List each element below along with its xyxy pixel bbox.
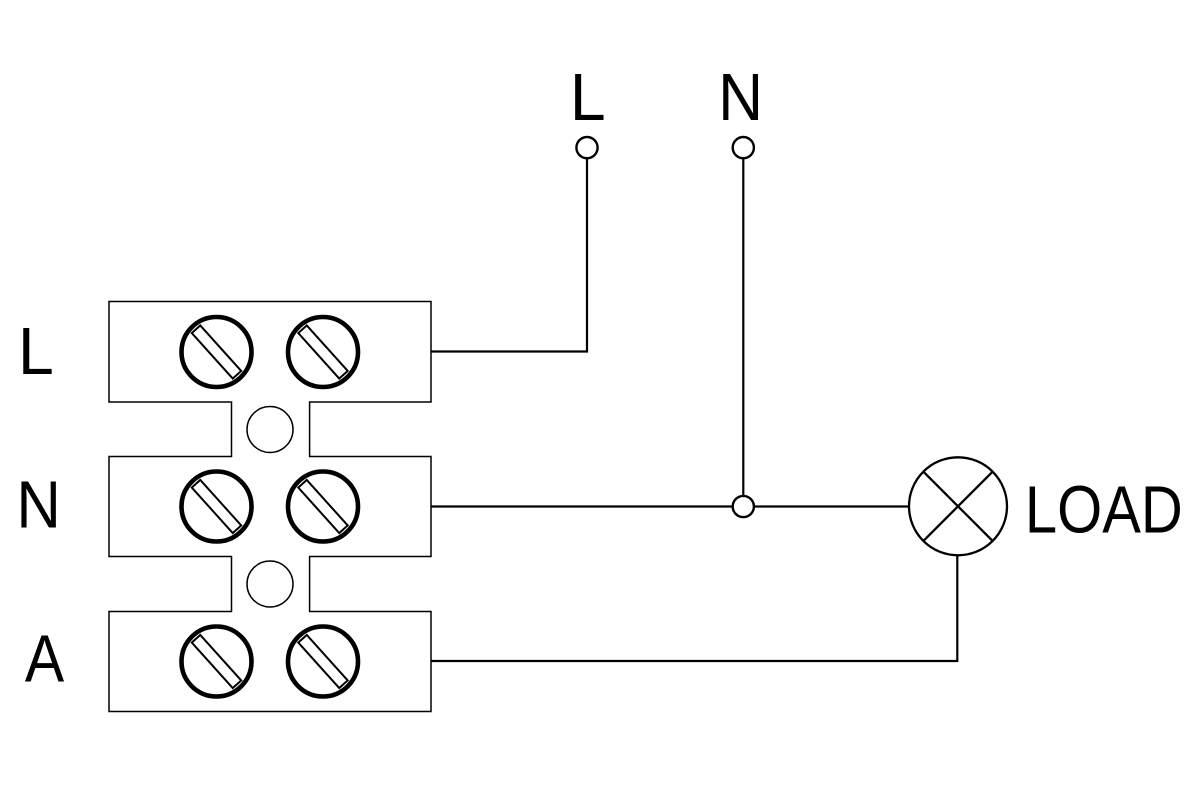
svg-text:L: L bbox=[570, 60, 606, 134]
svg-text:A: A bbox=[25, 622, 64, 696]
screw terminal A2 bbox=[288, 627, 358, 697]
terminal block body X1 bbox=[109, 302, 431, 712]
supply terminal L circle bbox=[576, 137, 597, 158]
mounting hole lower bbox=[247, 561, 293, 607]
svg-text:L: L bbox=[18, 314, 54, 388]
supply terminal N circle bbox=[733, 137, 754, 158]
svg-text:N: N bbox=[718, 59, 763, 135]
screw terminal N2 bbox=[288, 472, 358, 542]
mounting hole upper bbox=[247, 407, 293, 453]
wire N terminal to junction bbox=[431, 505, 733, 507]
wire supply N vertical bbox=[742, 158, 744, 495]
screw terminal N1 bbox=[182, 472, 252, 542]
svg-text:N: N bbox=[16, 467, 61, 542]
svg-text:LOAD: LOAD bbox=[1025, 473, 1183, 548]
wire A terminal to lamp bottom bbox=[431, 556, 957, 661]
lamp LOAD bbox=[909, 457, 1007, 555]
wire junction to lamp bbox=[754, 505, 909, 507]
screw terminal L1 bbox=[182, 317, 252, 387]
wire L terminal to supply L bbox=[431, 158, 587, 351]
screw terminal L2 bbox=[288, 317, 358, 387]
junction node bbox=[733, 496, 754, 517]
screw terminal A1 bbox=[182, 627, 252, 697]
